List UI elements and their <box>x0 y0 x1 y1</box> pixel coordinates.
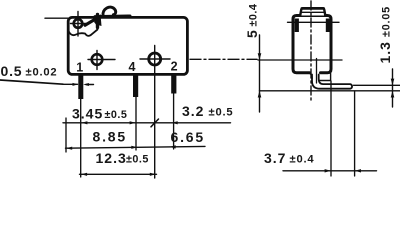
svg-text:0.5: 0.5 <box>1 63 23 79</box>
svg-text:±0.5: ±0.5 <box>209 106 234 118</box>
svg-text:6.65: 6.65 <box>171 129 205 145</box>
svg-text:2: 2 <box>171 60 178 74</box>
svg-text:12.3: 12.3 <box>96 150 127 166</box>
svg-text:3.2: 3.2 <box>182 103 204 119</box>
svg-text:±0.02: ±0.02 <box>26 67 58 79</box>
svg-text:4: 4 <box>129 60 136 74</box>
svg-text:8.85: 8.85 <box>93 128 127 144</box>
svg-text:3.7: 3.7 <box>264 150 286 166</box>
svg-text:±0.5: ±0.5 <box>105 109 128 121</box>
svg-text:5: 5 <box>244 30 260 38</box>
svg-text:±0.5: ±0.5 <box>126 154 149 166</box>
svg-text:±0.4: ±0.4 <box>290 153 315 165</box>
svg-text:3.45: 3.45 <box>72 106 103 122</box>
svg-text:±0.05: ±0.05 <box>381 6 393 37</box>
svg-text:1.3: 1.3 <box>377 41 393 63</box>
svg-text:±0.4: ±0.4 <box>248 4 260 27</box>
svg-text:1: 1 <box>76 61 83 75</box>
